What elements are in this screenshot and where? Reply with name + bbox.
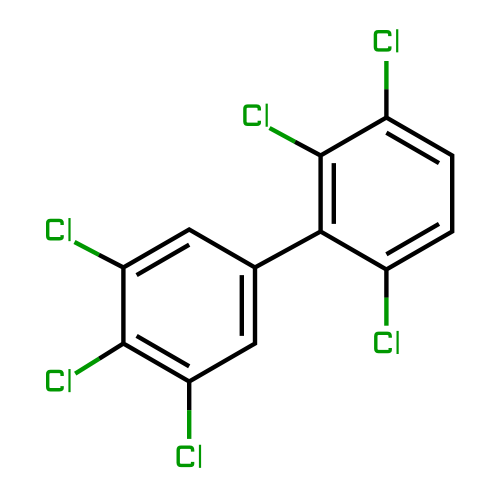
biphenyl single bond between rings bbox=[255, 232, 321, 268]
bond C5'-Cl, carbon half bbox=[187, 382, 191, 411]
atom label Cl (4'-position) bbox=[48, 369, 71, 392]
bond C4'-Cl, chlorine half bbox=[75, 359, 99, 374]
double bond inner line left ring bottom-left bbox=[137, 336, 190, 366]
bond C3-Cl top, chlorine half bbox=[384, 61, 388, 89]
bond C3'-Cl, chlorine half bbox=[75, 242, 99, 255]
double bond inner line right ring left vertical bbox=[332, 163, 336, 224]
bond C6-Cl bottom, chlorine half bbox=[384, 298, 388, 326]
bond C3'-Cl, carbon half bbox=[99, 255, 124, 268]
bond C3-Cl top, carbon half bbox=[384, 89, 388, 117]
atom label Cl (3-position, top) bbox=[375, 29, 398, 52]
benzene ring right (2,3,6-trichlorophenyl) outer hexagon bbox=[321, 118, 453, 270]
bond C2-Cl upper, carbon half bbox=[295, 142, 321, 156]
bond C4'-Cl, carbon half bbox=[99, 344, 123, 359]
benzene ring left (3,4,5-trichlorophenyl) outer hexagon bbox=[123, 230, 255, 382]
atom label Cl (5'-position, bottom) bbox=[178, 445, 201, 468]
atom label Cl (3'-position) bbox=[48, 218, 71, 241]
double bond inner line left ring right vertical bbox=[240, 275, 244, 336]
double bond inner line right ring top-right bbox=[386, 133, 439, 163]
bond C2-Cl upper, chlorine half bbox=[270, 128, 296, 142]
bond C5'-Cl, chlorine half bbox=[187, 410, 191, 439]
double bond inner line right ring bottom-right bbox=[386, 224, 439, 254]
double bond inner line left ring top-left bbox=[137, 245, 190, 275]
atom label Cl (2-position) bbox=[245, 104, 268, 127]
atom label Cl (6-position, bottom right) bbox=[376, 331, 399, 354]
bond C6-Cl bottom, carbon half bbox=[384, 270, 388, 298]
